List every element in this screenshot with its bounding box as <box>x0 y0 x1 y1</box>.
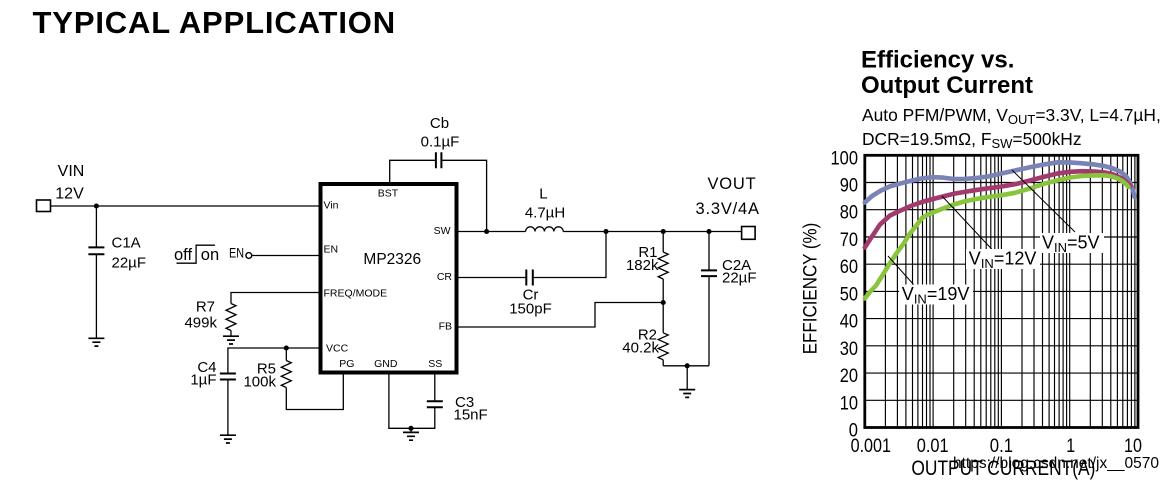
wire SS pin down <box>434 373 436 402</box>
node VIN label <box>55 163 84 203</box>
ground (GND/SS) <box>403 432 419 440</box>
svg-text:40: 40 <box>840 311 858 333</box>
svg-text:SS: SS <box>428 358 442 370</box>
callout line VIN=5V <box>1012 170 1075 232</box>
svg-text:VCC: VCC <box>326 342 349 354</box>
svg-text:GND: GND <box>374 358 398 370</box>
op-amp U1 MP2326 IC body <box>321 184 457 373</box>
capacitor C3 value label <box>454 394 488 424</box>
inductor L value label <box>525 186 565 222</box>
junction dot VCC/R5 <box>284 345 289 350</box>
junction dot VIN/C1A <box>94 203 99 208</box>
chart gridlines vertical (log) <box>885 155 1135 427</box>
capacitor C1A <box>88 206 104 338</box>
terminal VIN <box>37 200 51 212</box>
terminal VOUT <box>742 227 756 240</box>
svg-text:R7: R7 <box>196 299 215 316</box>
callout line VIN=12V <box>942 196 1000 258</box>
svg-text:100: 100 <box>831 147 859 169</box>
ground (output) <box>679 390 695 398</box>
svg-text:1: 1 <box>1066 435 1075 457</box>
svg-text:OUTPUT CURRENT(A): OUTPUT CURRENT(A) <box>911 457 1095 480</box>
svg-text:MP2326: MP2326 <box>363 251 421 268</box>
svg-text:off: off <box>174 246 192 264</box>
svg-text:VIN=5V: VIN=5V <box>1042 232 1100 255</box>
junction dot SW/C2A <box>706 229 711 234</box>
svg-text:SW: SW <box>434 225 451 237</box>
svg-text:Cb: Cb <box>430 115 449 132</box>
svg-text:FREQ/MODE: FREQ/MODE <box>324 288 388 300</box>
capacitor Cr value label <box>509 286 552 317</box>
wire R7 to ground <box>230 331 232 337</box>
svg-text:0.01: 0.01 <box>917 435 949 457</box>
junction dot SW/R1 <box>661 229 666 234</box>
capacitor C3 <box>411 401 443 428</box>
junction dot Cb/SW <box>484 229 489 234</box>
switch off/on symbol <box>174 245 219 264</box>
wire GND pin down <box>389 373 411 429</box>
resistor R5 <box>281 348 291 388</box>
svg-text:499k: 499k <box>184 314 217 331</box>
capacitor C2A value label <box>722 257 757 287</box>
svg-text:30: 30 <box>840 338 858 360</box>
svg-text:Vin: Vin <box>324 199 339 211</box>
chart gridlines horizontal <box>865 183 1138 401</box>
chart title Efficiency vs. Output Current <box>861 47 1033 100</box>
ground (R7) <box>223 336 239 344</box>
svg-text:90: 90 <box>840 175 858 197</box>
svg-text:40.2k: 40.2k <box>622 339 659 356</box>
resistor R1 value label <box>626 244 659 274</box>
node VOUT label <box>696 175 760 218</box>
svg-text:C1A: C1A <box>112 235 141 252</box>
svg-text:VIN=19V: VIN=19V <box>902 284 970 307</box>
wire VCC rail <box>228 348 321 374</box>
svg-text:PG: PG <box>339 358 354 370</box>
junction dot SW/CR branch <box>603 229 608 234</box>
svg-text:182k: 182k <box>626 257 659 274</box>
label VIN=5V <box>1040 232 1104 255</box>
curve VIN=5V (blue) <box>865 162 1135 202</box>
wire to ground (GND/SS) <box>410 428 412 432</box>
resistor R1 <box>658 232 668 303</box>
svg-text:Efficiency vs.: Efficiency vs. <box>861 47 1014 74</box>
svg-text:22µF: 22µF <box>722 269 757 286</box>
wire SW rail left of L <box>457 231 526 233</box>
title TYPICAL APPLICATION <box>33 5 396 41</box>
wire Cb to SW rail <box>441 160 486 231</box>
capacitor C2A <box>701 232 717 366</box>
chart frame <box>865 155 1138 427</box>
svg-text:50: 50 <box>840 283 858 305</box>
curve VIN=12V (crimson) <box>865 171 1131 247</box>
svg-text:10: 10 <box>1124 435 1142 457</box>
curve VIN=19V (green) <box>865 175 1129 298</box>
resistor R7 <box>226 304 236 331</box>
y axis tick labels <box>831 147 859 441</box>
svg-text:EN: EN <box>229 246 244 261</box>
junction dot ground node <box>685 363 690 368</box>
resistor R5 value label <box>243 361 276 391</box>
svg-text:1µF: 1µF <box>190 371 216 388</box>
svg-text:3.3V/4A: 3.3V/4A <box>696 200 760 218</box>
svg-text:15nF: 15nF <box>454 407 488 424</box>
wire FB branch <box>457 303 664 328</box>
capacitor Cr <box>526 270 533 286</box>
svg-text:Auto PFM/PWM, VOUT=3.3V, L=4.7: Auto PFM/PWM, VOUT=3.3V, L=4.7µH, <box>862 105 1161 127</box>
capacitor C4 <box>220 374 236 436</box>
wire BST to Cb <box>390 160 436 184</box>
ground (C1A) <box>88 338 104 346</box>
capacitor Cb <box>436 152 442 168</box>
capacitor C1A value label <box>112 235 147 272</box>
svg-text:80: 80 <box>840 202 858 224</box>
svg-text:0.1µF: 0.1µF <box>421 134 460 151</box>
wire SW rail right of L <box>563 231 741 233</box>
svg-text:10: 10 <box>840 392 858 414</box>
svg-text:22µF: 22µF <box>112 254 147 271</box>
EN open circle <box>246 253 252 259</box>
svg-text:12V: 12V <box>55 186 84 203</box>
svg-text:VIN=12V: VIN=12V <box>969 248 1037 271</box>
svg-text:100k: 100k <box>243 373 276 390</box>
wire EN to IC <box>252 255 321 257</box>
svg-text:60: 60 <box>840 256 858 278</box>
svg-text:CR: CR <box>437 271 453 283</box>
inductor L <box>526 227 564 232</box>
junction dot FB/R1/R2 <box>661 300 666 305</box>
wire FREQ/MODE to R7 <box>231 293 321 304</box>
resistor R2 value label <box>622 326 659 356</box>
svg-text:EFFICIENCY (%): EFFICIENCY (%) <box>800 223 821 355</box>
svg-text:70: 70 <box>840 229 858 251</box>
svg-text:VIN: VIN <box>58 163 85 180</box>
svg-text:Output Current: Output Current <box>861 72 1033 99</box>
svg-text:VOUT: VOUT <box>707 175 756 193</box>
wire to ground (output) <box>686 366 688 390</box>
ground (C4) <box>220 435 236 443</box>
label VIN=12V <box>966 248 1040 271</box>
svg-text:DCR=19.5mΩ, FSW=500kHz: DCR=19.5mΩ, FSW=500kHz <box>862 129 1082 151</box>
svg-text:4.7µH: 4.7µH <box>525 204 565 221</box>
svg-text:BST: BST <box>378 188 399 200</box>
svg-text:L: L <box>539 186 547 203</box>
svg-text:on: on <box>201 246 219 264</box>
resistor R7 value label <box>184 299 217 332</box>
svg-text:0.001: 0.001 <box>851 435 891 457</box>
wire R5 to PG pin <box>286 373 343 410</box>
x axis tick labels <box>851 435 1142 457</box>
capacitor C4 value label <box>190 359 216 388</box>
svg-text:150pF: 150pF <box>509 301 552 318</box>
wire VIN rail <box>51 205 321 207</box>
wire CR branch <box>457 232 607 278</box>
capacitor Cb value label <box>421 115 460 151</box>
junction dot GND/SS ground <box>408 426 413 431</box>
resistor R2 <box>658 303 668 366</box>
callout line VIN=19V <box>888 256 914 285</box>
svg-text:EN: EN <box>324 244 339 256</box>
label VIN=19V <box>899 284 973 307</box>
svg-text:FB: FB <box>439 321 452 333</box>
svg-text:20: 20 <box>840 365 858 387</box>
svg-text:0.1: 0.1 <box>990 435 1013 457</box>
wire R2 to C2A bottom <box>663 365 709 367</box>
